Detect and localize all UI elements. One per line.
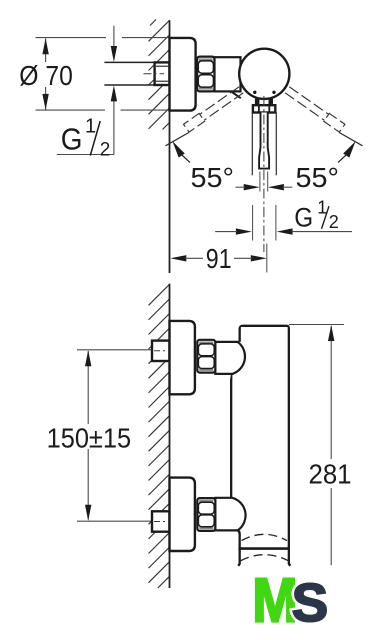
flange lower (front view) bbox=[170, 478, 195, 551]
arrow 281 up bbox=[328, 325, 334, 341]
swing arrow right bbox=[343, 141, 355, 157]
dim line 150 bbox=[87, 351, 89, 520]
flange (top view) bbox=[170, 38, 196, 111]
body (front view) bbox=[231, 326, 290, 566]
nipple lower centerline bbox=[154, 521, 168, 523]
G1/2 witness left bbox=[252, 205, 254, 241]
stem width witness left bbox=[259, 172, 261, 192]
valve body (top view) bbox=[215, 57, 241, 91]
dim line D70 bbox=[45, 39, 47, 110]
svg-text:S: S bbox=[292, 573, 328, 632]
svg-text:281: 281 bbox=[309, 458, 352, 489]
handle neck right bbox=[269, 99, 274, 106]
boss upper (front view) bbox=[215, 342, 245, 374]
hex nut (top view) bbox=[197, 57, 214, 92]
svg-text:91: 91 bbox=[206, 243, 232, 274]
label G1/2 top bbox=[61, 122, 83, 157]
outlet tube line right bbox=[275, 112, 277, 175]
outlet tube line left bbox=[251, 112, 253, 175]
dim ext line D70 top bbox=[36, 37, 170, 39]
svg-text:55°: 55° bbox=[191, 162, 235, 193]
arrow 150 up bbox=[85, 350, 91, 366]
svg-text:1: 1 bbox=[85, 116, 96, 138]
swing line right bbox=[339, 133, 362, 146]
ext line 281 top bbox=[289, 324, 344, 326]
91 arrow left bbox=[170, 255, 186, 261]
91 arrow right bbox=[251, 255, 267, 261]
ext line 150 bottom bbox=[77, 520, 153, 522]
pipe nipple in wall (top view) bbox=[155, 62, 170, 85]
hex nut lower (front view) bbox=[197, 498, 215, 531]
cartridge circle (top view) bbox=[239, 49, 289, 99]
stem width arrow left bbox=[244, 184, 260, 190]
hex nut upper (front view) bbox=[197, 340, 215, 373]
swing arrow left tail bbox=[182, 155, 190, 163]
ghost lever right tip bbox=[324, 113, 345, 132]
dim line G1/2 top bbox=[113, 26, 115, 155]
svg-text:G: G bbox=[61, 122, 83, 157]
ghost lever left tip bbox=[184, 113, 205, 132]
wall face line (front view) bbox=[169, 284, 171, 588]
swing arrow right tail bbox=[338, 155, 346, 163]
ghost lever left edge B bbox=[204, 93, 243, 121]
handle band inner right bbox=[268, 105, 270, 112]
arrow D70 down bbox=[42, 94, 48, 110]
ghost lever left edge A bbox=[200, 87, 239, 115]
ext line 150 top bbox=[77, 349, 153, 351]
body chamfer to circle bbox=[231, 91, 241, 98]
flange upper (front view) bbox=[170, 321, 195, 394]
arrow D70 up bbox=[42, 38, 48, 54]
supply pipe (top view) bbox=[104, 62, 154, 85]
body fill bbox=[241, 327, 288, 564]
stem width arrow right bbox=[268, 184, 284, 190]
nipple upper (front view) bbox=[152, 341, 170, 361]
screw dot left bbox=[253, 91, 256, 94]
handle band bbox=[253, 105, 275, 112]
nut chamfer strips (top view) bbox=[199, 58, 213, 61]
outlet junction line bbox=[238, 547, 289, 550]
svg-text:2: 2 bbox=[100, 140, 111, 161]
leader G1/2 top bbox=[57, 154, 114, 156]
handle centerline bbox=[263, 96, 265, 252]
svg-text:150±15: 150±15 bbox=[47, 423, 132, 454]
thread arc upper bbox=[242, 534, 288, 540]
nut facet top (top view) bbox=[198, 61, 213, 73]
label G1/2 bottom bbox=[294, 203, 313, 232]
pipe centerline (top view) bbox=[144, 73, 165, 75]
G1/2 arrow right bbox=[277, 228, 293, 234]
G1/2 witness right bbox=[275, 205, 277, 241]
stem width witness right bbox=[267, 172, 269, 192]
wall hatching (top view) bbox=[149, 20, 170, 41]
ghost lever right edge B bbox=[285, 93, 324, 121]
svg-text:55°: 55° bbox=[296, 162, 340, 193]
wall face line (top view) bbox=[169, 20, 171, 273]
logo M bbox=[252, 566, 297, 635]
thread arc lower bbox=[241, 555, 289, 561]
nipple lower (front view) bbox=[152, 511, 170, 531]
dim ext line D70 bottom bbox=[36, 109, 170, 111]
boss lower (front view) bbox=[215, 498, 245, 531]
svg-text:Ø 70: Ø 70 bbox=[19, 60, 73, 91]
arrow G1/2 up bbox=[111, 85, 117, 101]
screw dot right bbox=[272, 91, 275, 94]
arrow G1/2 down bbox=[111, 46, 117, 62]
svg-text:2: 2 bbox=[329, 212, 339, 232]
svg-text:G: G bbox=[294, 203, 313, 232]
G1/2 arrow left bbox=[236, 228, 252, 234]
91 witness right bbox=[266, 244, 268, 273]
nipple upper centerline bbox=[154, 350, 168, 352]
swing arrow left bbox=[173, 141, 185, 157]
ghost lever right edge A bbox=[289, 87, 328, 115]
lever stem bbox=[259, 113, 269, 169]
dim line 281 bbox=[330, 326, 332, 565]
handle neck left bbox=[255, 99, 260, 106]
wall hatching (front view) bbox=[149, 284, 170, 305]
arrow 150 down bbox=[85, 505, 91, 521]
swing line left bbox=[166, 133, 189, 146]
logo S bbox=[292, 573, 328, 632]
logo S halo bbox=[292, 573, 328, 632]
nut facet bottom (top view) bbox=[198, 75, 213, 87]
handle band inner left bbox=[258, 105, 260, 112]
